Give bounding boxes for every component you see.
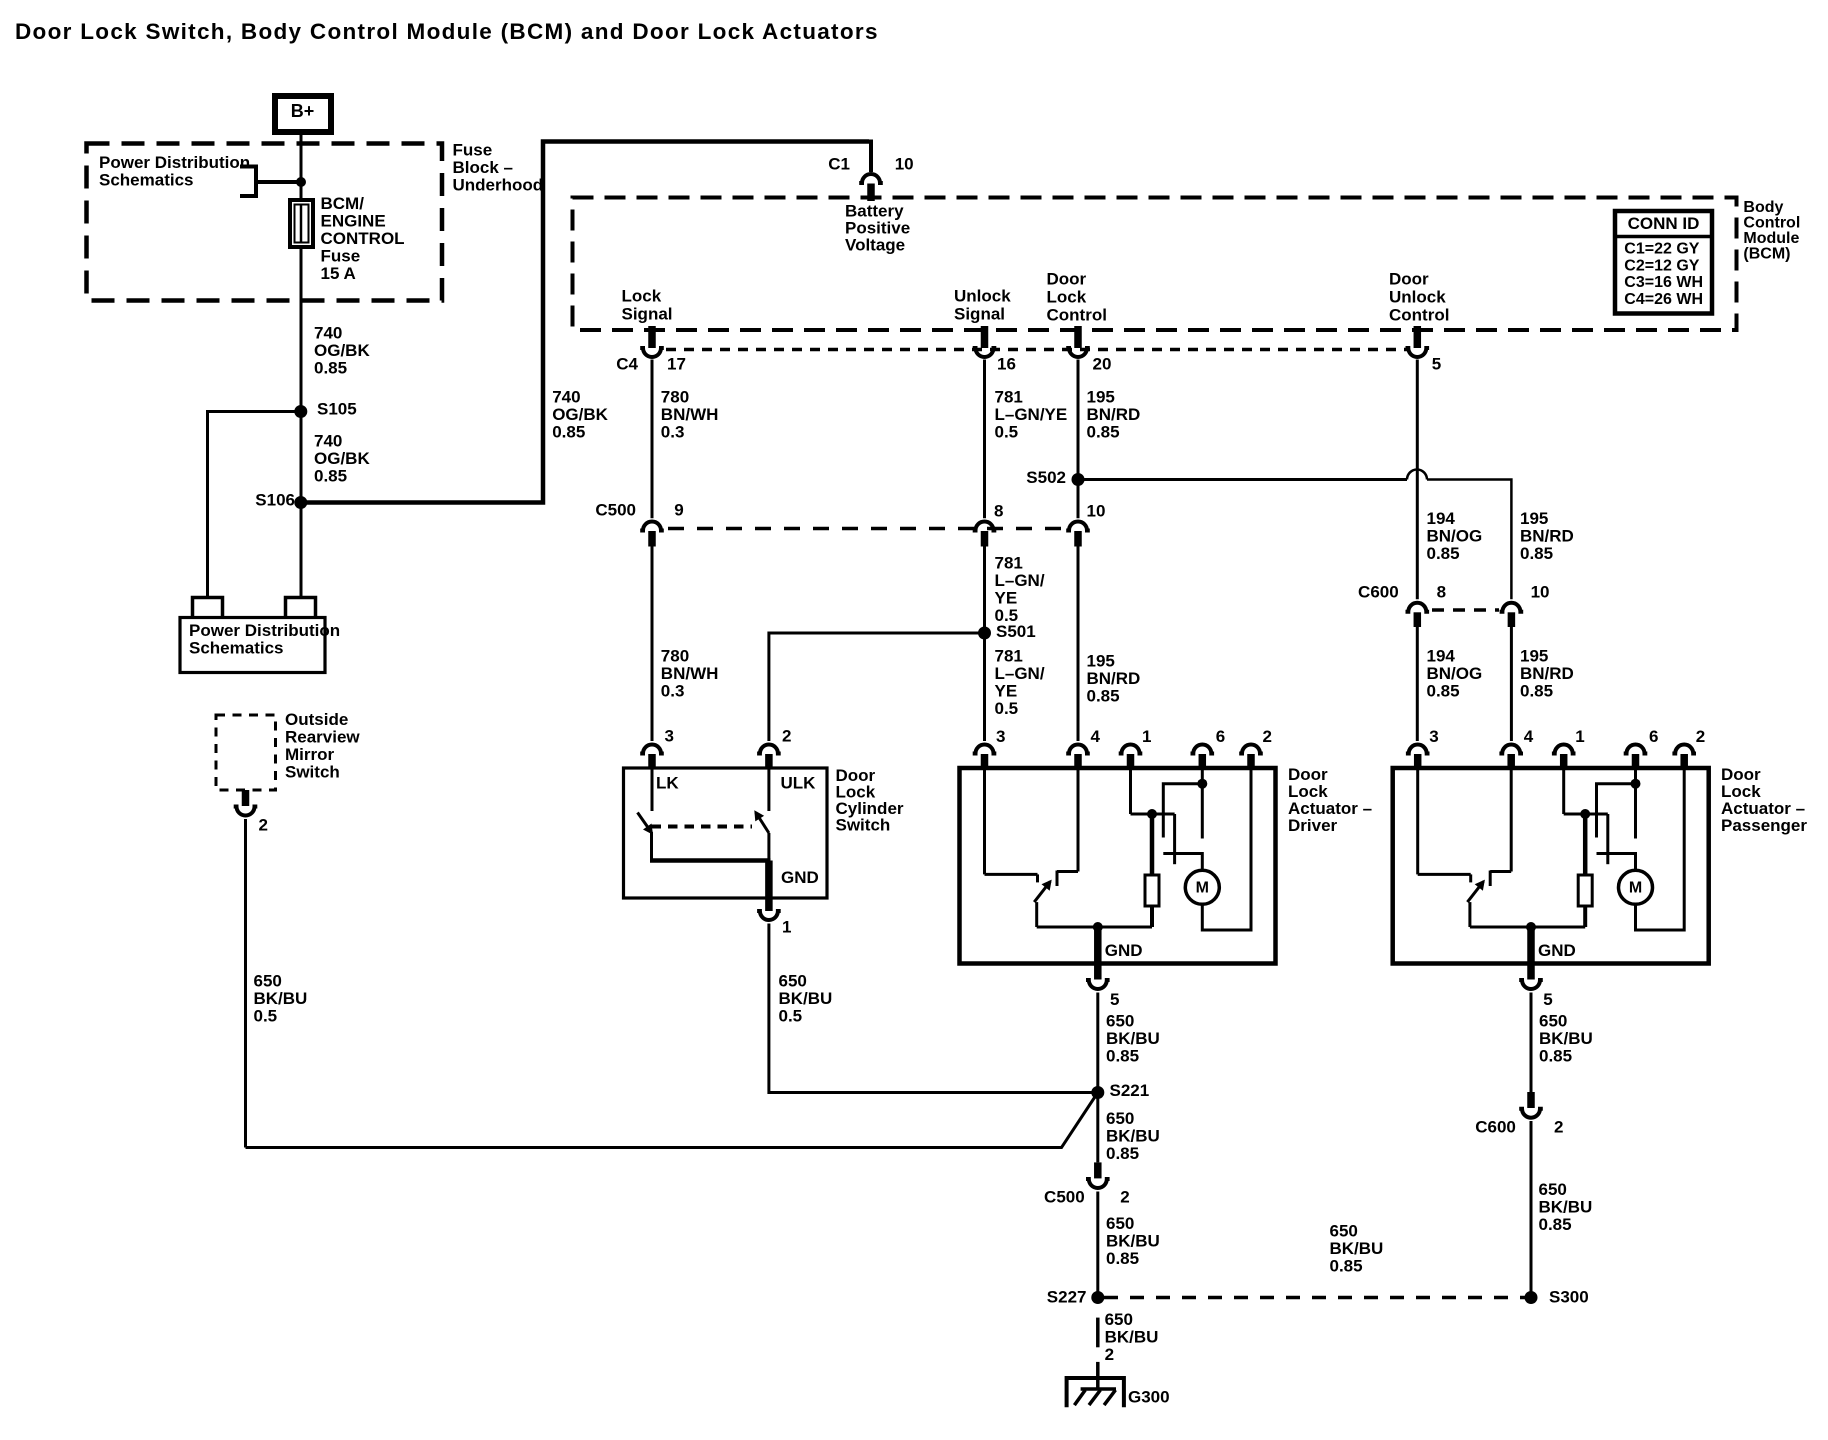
- wire: [983, 768, 986, 874]
- motor M driver: [1185, 870, 1219, 904]
- svg-text:C500: C500: [595, 501, 636, 520]
- wire: [1597, 784, 1636, 838]
- svg-text:650BK/BU0.85: 650BK/BU0.85: [1106, 1109, 1160, 1163]
- svg-text:C1: C1: [828, 155, 850, 174]
- svg-text:DoorLockControl: DoorLockControl: [1047, 269, 1107, 324]
- wire: [767, 833, 770, 861]
- connector C600 pin 10: [1500, 603, 1524, 612]
- wire: [1163, 784, 1202, 838]
- svg-text:S300: S300: [1549, 1288, 1589, 1307]
- svg-text:781L–GN/YE0.5: 781L–GN/YE0.5: [995, 554, 1045, 626]
- svg-text:650BK/BU0.85: 650BK/BU0.85: [1539, 1012, 1593, 1066]
- contact bar: [1056, 871, 1059, 887]
- wire: [1510, 768, 1513, 872]
- svg-text:650BK/BU0.5: 650BK/BU0.5: [254, 972, 308, 1026]
- pin 1: [1552, 745, 1576, 754]
- wire: [983, 547, 986, 634]
- connector C500 pin 10: [1066, 522, 1090, 531]
- svg-text:CONN ID: CONN ID: [1628, 214, 1700, 233]
- svg-text:DoorUnlockControl: DoorUnlockControl: [1389, 269, 1449, 324]
- connector C600 pin 2: [1527, 1092, 1535, 1108]
- svg-text:2: 2: [1263, 727, 1272, 746]
- junction: [1147, 809, 1157, 819]
- svg-text:UnlockSignal: UnlockSignal: [954, 286, 1011, 323]
- svg-text:3: 3: [996, 727, 1005, 746]
- ground G300: [1067, 1378, 1124, 1407]
- pin 4: [1066, 745, 1090, 754]
- svg-text:S106: S106: [255, 491, 295, 510]
- svg-text:195BN/RD0.85: 195BN/RD0.85: [1520, 647, 1574, 701]
- svg-text:Power DistributionSchematics: Power DistributionSchematics: [99, 153, 250, 190]
- pin 1 GND: [765, 861, 773, 912]
- wire splice dashed: [1104, 1296, 1525, 1300]
- svg-text:16: 16: [997, 355, 1016, 374]
- wire: [246, 1093, 1098, 1148]
- wire: [1202, 768, 1251, 930]
- svg-text:1: 1: [1142, 727, 1151, 746]
- pin 3: [973, 745, 997, 754]
- pin 2: [1239, 745, 1263, 754]
- svg-text:650BK/BU0.85: 650BK/BU0.85: [1539, 1180, 1593, 1234]
- svg-text:4: 4: [1524, 727, 1534, 746]
- svg-text:10: 10: [895, 155, 914, 174]
- wire: [651, 769, 654, 811]
- pin 5 GND: [1527, 927, 1535, 980]
- svg-text:C1=22 GYC2=12 GYC3=16 WHC4=26: C1=22 GYC2=12 GYC3=16 WHC4=26 WH: [1624, 240, 1703, 308]
- switch blade: [1034, 882, 1050, 903]
- wire: [208, 412, 301, 597]
- svg-text:780BN/WH0.3: 780BN/WH0.3: [661, 388, 719, 442]
- svg-text:GND: GND: [1105, 941, 1143, 960]
- svg-text:2: 2: [1696, 727, 1705, 746]
- wire: [1150, 906, 1154, 927]
- svg-text:194BN/OG0.85: 194BN/OG0.85: [1427, 647, 1483, 701]
- wire: [1096, 993, 1099, 1093]
- wire: [1634, 784, 1637, 839]
- connector C4 dashed line: [666, 348, 1408, 352]
- svg-text:C4: C4: [616, 355, 638, 374]
- wire: [767, 769, 770, 811]
- junction: [1580, 809, 1590, 819]
- motor M passenger: [1619, 870, 1653, 904]
- svg-text:6: 6: [1649, 727, 1658, 746]
- wire unlock signal: [983, 360, 986, 519]
- plunger: [1173, 814, 1176, 864]
- svg-text:650BK/BU0.85: 650BK/BU0.85: [1106, 1214, 1160, 1268]
- wire: [769, 924, 1094, 1093]
- node GND junction: [1093, 922, 1103, 932]
- svg-text:M: M: [1629, 880, 1642, 897]
- svg-text:9: 9: [674, 501, 683, 520]
- connector C500 pin 8: [973, 522, 997, 531]
- svg-text:3: 3: [1429, 727, 1438, 746]
- wire: [1035, 902, 1038, 927]
- svg-text:DoorLockActuator –Driver: DoorLockActuator –Driver: [1288, 765, 1372, 835]
- wire: [1583, 814, 1588, 875]
- wire: [983, 633, 986, 741]
- svg-text:740OG/BK0.85: 740OG/BK0.85: [314, 324, 370, 378]
- resistor: [1578, 875, 1592, 906]
- svg-text:BatteryPositiveVoltage: BatteryPositiveVoltage: [845, 202, 910, 255]
- wire: [1634, 768, 1637, 784]
- svg-text:DoorLockCylinderSwitch: DoorLockCylinderSwitch: [836, 766, 904, 835]
- pin 3: [1406, 745, 1430, 754]
- svg-text:2: 2: [259, 816, 268, 835]
- pin 6: [1191, 745, 1215, 754]
- wire: [300, 412, 303, 503]
- wire: [1201, 768, 1204, 784]
- connector C1 pin 10: [859, 174, 883, 183]
- wire: [1096, 1093, 1099, 1163]
- node S300: [1525, 1291, 1538, 1304]
- wire: [1077, 547, 1080, 742]
- svg-text:8: 8: [994, 502, 1003, 521]
- wire lock signal: [651, 360, 654, 519]
- node fuse feed junction: [296, 177, 306, 187]
- connector C500 pin 9: [640, 522, 664, 531]
- resistor: [1145, 875, 1159, 906]
- pin 4: [1499, 745, 1523, 754]
- wire B+ feed bus: [301, 142, 869, 503]
- svg-text:650BK/BU2: 650BK/BU2: [1105, 1310, 1159, 1364]
- power distribution schematics box: [180, 618, 325, 673]
- wire: [300, 134, 303, 201]
- wire: [1562, 768, 1565, 814]
- switch blade: [1467, 882, 1483, 903]
- svg-text:B+: B+: [291, 101, 315, 121]
- door lock actuator passenger box: [1393, 768, 1709, 964]
- svg-text:2: 2: [782, 727, 791, 746]
- svg-text:C600: C600: [1475, 1117, 1516, 1136]
- node GND junction: [1526, 922, 1536, 932]
- wire: [1510, 627, 1513, 741]
- svg-text:BCM/ENGINECONTROLFuse15 A: BCM/ENGINECONTROLFuse15 A: [321, 194, 405, 283]
- svg-text:S221: S221: [1110, 1081, 1150, 1100]
- battery terminal B+: [275, 96, 331, 132]
- node S502: [1072, 473, 1085, 486]
- junction: [1631, 779, 1641, 789]
- connector C500 pin 2: [1094, 1162, 1102, 1178]
- svg-text:C500: C500: [1044, 1187, 1085, 1206]
- svg-text:5: 5: [1110, 990, 1119, 1009]
- wire S502 branch with crossover: [1078, 478, 1407, 481]
- pin 2: [757, 745, 781, 754]
- svg-text:LockSignal: LockSignal: [622, 286, 673, 323]
- svg-text:Door Lock Switch, Body Control: Door Lock Switch, Body Control Module (B…: [15, 19, 879, 44]
- wire: [869, 140, 873, 173]
- connector C600 dashed line: [1432, 608, 1499, 612]
- svg-text:FuseBlock –Underhood: FuseBlock –Underhood: [453, 141, 544, 195]
- svg-text:ULK: ULK: [781, 774, 817, 793]
- svg-text:740OG/BK0.85: 740OG/BK0.85: [552, 388, 608, 442]
- svg-text:1: 1: [1575, 727, 1584, 746]
- wire: [1416, 627, 1419, 741]
- wire: [300, 247, 303, 412]
- fuse block dashed box: [87, 144, 443, 301]
- contact bar: [1489, 871, 1492, 887]
- connector C500 dashed line: [668, 527, 1062, 531]
- svg-text:10: 10: [1087, 502, 1106, 521]
- node S106: [294, 496, 307, 509]
- switch blade LK: [638, 813, 652, 833]
- svg-text:740OG/BK0.85: 740OG/BK0.85: [314, 432, 370, 486]
- svg-text:1: 1: [782, 918, 791, 937]
- wire: [300, 503, 303, 597]
- svg-text:4: 4: [1091, 727, 1101, 746]
- svg-text:S105: S105: [317, 400, 357, 419]
- wire: [1468, 902, 1471, 927]
- pin 2: [1672, 745, 1696, 754]
- switch blade ULK: [756, 813, 769, 834]
- svg-text:8: 8: [1437, 583, 1446, 602]
- wire: [1150, 814, 1155, 875]
- pin 5 GND: [1094, 927, 1102, 980]
- wire: [1129, 768, 1132, 814]
- node S105: [294, 405, 307, 418]
- wire: [1583, 906, 1587, 927]
- wire: [1530, 993, 1533, 1093]
- svg-text:G300: G300: [1128, 1388, 1170, 1407]
- node S227: [1091, 1291, 1104, 1304]
- door lock actuator driver box: [960, 768, 1276, 964]
- svg-text:781L–GN/YE0.5: 781L–GN/YE0.5: [995, 388, 1068, 442]
- svg-text:20: 20: [1093, 355, 1112, 374]
- moving contact: [1163, 854, 1202, 871]
- svg-text:LK: LK: [656, 774, 679, 793]
- wire: [769, 633, 985, 741]
- BCM dashed box: [573, 198, 1737, 331]
- svg-text:Power DistributionSchematics: Power DistributionSchematics: [189, 621, 340, 658]
- pin 20: [1074, 326, 1082, 348]
- junction: [1197, 779, 1207, 789]
- svg-text:650BK/BU0.85: 650BK/BU0.85: [1106, 1012, 1160, 1066]
- pin C4-17: [648, 326, 656, 348]
- wire: [650, 858, 771, 863]
- svg-text:194BN/OG0.85: 194BN/OG0.85: [1427, 509, 1483, 563]
- wire: [244, 819, 247, 1148]
- svg-text:6: 6: [1216, 727, 1225, 746]
- svg-text:BodyControlModule(BCM): BodyControlModule(BCM): [1743, 199, 1800, 263]
- wire: [1201, 784, 1204, 839]
- svg-text:780BN/WH0.3: 780BN/WH0.3: [661, 647, 719, 701]
- pin 2: [242, 790, 250, 806]
- wire: [651, 547, 654, 742]
- wire door lock control: [1077, 360, 1080, 519]
- svg-text:5: 5: [1432, 355, 1441, 374]
- wire: [1416, 768, 1419, 874]
- svg-text:17: 17: [667, 355, 686, 374]
- svg-text:781L–GN/YE0.5: 781L–GN/YE0.5: [995, 647, 1045, 719]
- node S221: [1091, 1086, 1104, 1099]
- svg-text:3: 3: [665, 727, 674, 746]
- wire: [1096, 1192, 1099, 1298]
- svg-text:10: 10: [1531, 583, 1550, 602]
- node S501: [978, 627, 991, 640]
- outside rearview mirror switch dashed box: [216, 715, 276, 790]
- wire: [1636, 768, 1685, 930]
- svg-text:650BK/BU0.85: 650BK/BU0.85: [1330, 1222, 1384, 1276]
- wire: [240, 165, 256, 169]
- wire dashed to ground: [1096, 1318, 1100, 1348]
- svg-text:OutsideRearviewMirrorSwitch: OutsideRearviewMirrorSwitch: [285, 710, 360, 782]
- switch link dashed: [652, 825, 753, 829]
- pin 6: [1624, 745, 1648, 754]
- pin 5: [1414, 326, 1422, 348]
- svg-text:195BN/RD0.85: 195BN/RD0.85: [1520, 509, 1574, 563]
- svg-text:195BN/RD0.85: 195BN/RD0.85: [1087, 388, 1141, 442]
- svg-text:DoorLockActuator –Passenger: DoorLockActuator –Passenger: [1721, 765, 1807, 835]
- svg-text:650BK/BU0.5: 650BK/BU0.5: [779, 972, 833, 1026]
- plunger: [1606, 814, 1609, 864]
- wire: [1530, 1121, 1533, 1298]
- svg-text:S227: S227: [1047, 1288, 1087, 1307]
- svg-text:GND: GND: [1538, 941, 1576, 960]
- svg-text:5: 5: [1543, 990, 1552, 1009]
- svg-text:GND: GND: [781, 868, 819, 887]
- wire: [650, 832, 653, 861]
- svg-text:C600: C600: [1358, 583, 1399, 602]
- svg-text:2: 2: [1554, 1117, 1563, 1136]
- wire: [1077, 768, 1080, 872]
- wire door unlock control: [1416, 360, 1419, 600]
- fuse F1 BCM/ENGINE CONTROL 15A: [290, 200, 313, 247]
- CONN ID table: [1615, 211, 1712, 314]
- svg-text:195BN/RD0.85: 195BN/RD0.85: [1087, 652, 1141, 706]
- pin 3: [640, 745, 664, 754]
- pin 1: [1119, 745, 1143, 754]
- svg-text:S502: S502: [1026, 468, 1066, 487]
- svg-text:M: M: [1196, 880, 1209, 897]
- svg-text:S501: S501: [996, 622, 1036, 641]
- moving contact: [1597, 854, 1636, 871]
- pin 16: [981, 326, 989, 348]
- connector C600 pin 8: [1406, 603, 1430, 612]
- svg-text:2: 2: [1120, 1187, 1129, 1206]
- door lock cylinder switch box: [624, 768, 828, 898]
